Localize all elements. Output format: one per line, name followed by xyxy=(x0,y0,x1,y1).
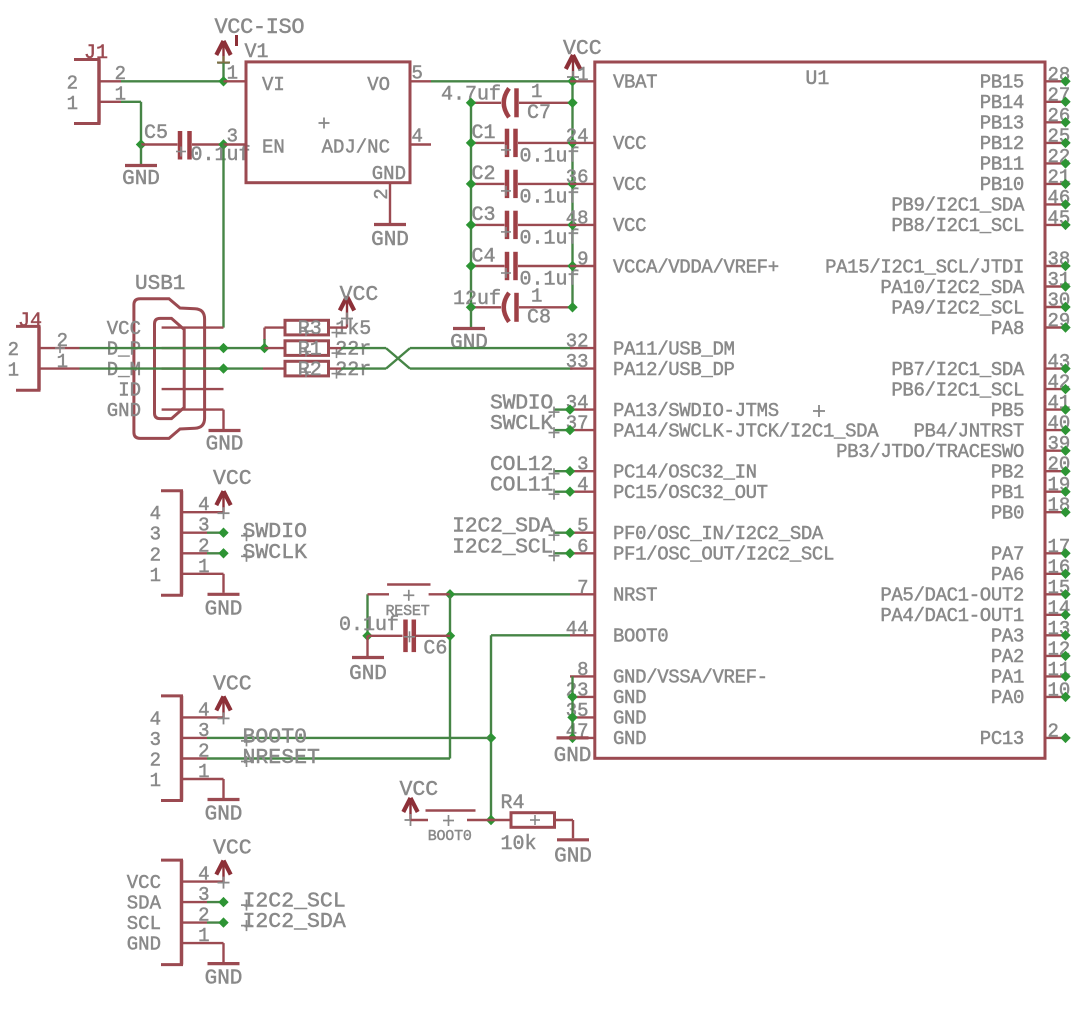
svg-text:1: 1 xyxy=(67,93,78,115)
svg-text:8: 8 xyxy=(577,659,588,681)
wire J1.1 to C5 xyxy=(121,102,141,145)
IC U1 pin 12 (PA2) xyxy=(991,638,1071,668)
IC U1 pin 9 (VCCA/VDDA/VREF+) xyxy=(570,249,779,279)
svg-text:1: 1 xyxy=(150,770,161,792)
svg-text:3: 3 xyxy=(150,729,161,751)
svg-text:1: 1 xyxy=(8,360,19,382)
IC U1 pin 10 (PA0) xyxy=(991,679,1071,709)
svg-text:PF1/OSC_OUT/I2C2_SCL: PF1/OSC_OUT/I2C2_SCL xyxy=(613,544,834,566)
svg-text:VCC: VCC xyxy=(613,174,646,196)
svg-text:PA0: PA0 xyxy=(991,687,1024,709)
ground at U1 GND pins xyxy=(557,736,589,739)
svg-text:C4: C4 xyxy=(472,245,496,268)
svg-text:0.1uf: 0.1uf xyxy=(339,614,399,637)
net label COL12 at U1 xyxy=(490,453,575,479)
IC U1 pin 44 (BOOT0) xyxy=(566,618,669,648)
wire U1 GND pins xyxy=(571,676,573,738)
IC U1 pin 48 (VCC) xyxy=(566,207,646,237)
wire R3 to D_P xyxy=(263,328,265,349)
svg-text:PB2: PB2 xyxy=(991,462,1024,484)
IC U1 pin 33 (PA12/USB_DP) xyxy=(566,351,735,381)
connector J4 pin numbers xyxy=(8,330,68,382)
regulator V1 pin 1 (VI) xyxy=(224,63,247,85)
connector USB1 pin ID xyxy=(118,379,223,401)
SWD header pin header bracket xyxy=(161,491,183,596)
IC U1 pin 18 (PB0) xyxy=(991,495,1071,525)
connector USB1 pin D_M xyxy=(107,359,224,381)
net label SWCLK at header xyxy=(207,541,307,565)
wire V1.VO to VCC rail xyxy=(431,80,574,82)
connector J1 pin numbers xyxy=(67,63,126,115)
svg-text:PB6/I2C1_SCL: PB6/I2C1_SCL xyxy=(891,379,1024,401)
resistor R3 1k5 xyxy=(265,318,372,341)
IC U1 pin 3 (PC14/OSC32_IN) xyxy=(570,454,757,484)
svg-text:10k: 10k xyxy=(501,833,537,856)
wire D_M J4 to R2 xyxy=(80,367,264,369)
svg-text:PA15/I2C1_SCL/JTDI: PA15/I2C1_SCL/JTDI xyxy=(825,256,1024,278)
svg-text:VO: VO xyxy=(367,74,390,96)
svg-text:VCC: VCC xyxy=(127,872,161,894)
svg-text:22r: 22r xyxy=(335,359,371,382)
svg-text:PA10/I2C2_SDA: PA10/I2C2_SDA xyxy=(880,277,1025,299)
svg-text:2: 2 xyxy=(371,188,393,199)
node USB D_P junction xyxy=(218,343,228,353)
svg-text:48: 48 xyxy=(566,207,589,229)
svg-text:J1: J1 xyxy=(84,42,108,65)
svg-text:BOOT0: BOOT0 xyxy=(613,626,668,648)
node EN junction xyxy=(218,139,228,149)
resistor R1 right lead xyxy=(329,347,342,349)
svg-text:3: 3 xyxy=(227,126,238,148)
svg-text:PB15: PB15 xyxy=(980,72,1024,94)
IC U1 pin 28 (PB15) xyxy=(980,64,1071,94)
svg-text:PB9/I2C1_SDA: PB9/I2C1_SDA xyxy=(891,195,1025,217)
svg-text:PC13: PC13 xyxy=(980,728,1024,750)
IC U1 pin 31 (PA10/I2C2_SDA) xyxy=(880,269,1070,299)
svg-text:C3: C3 xyxy=(472,204,496,227)
svg-text:R2: R2 xyxy=(298,359,322,382)
connector USB1 pin GND xyxy=(107,400,224,422)
svg-text:PC14/OSC32_IN: PC14/OSC32_IN xyxy=(613,462,757,484)
svg-text:VCC: VCC xyxy=(340,283,379,307)
svg-text:5: 5 xyxy=(412,63,423,85)
junction dots on VCC cap column xyxy=(567,98,577,313)
svg-text:GND: GND xyxy=(122,168,160,191)
svg-text:PA3: PA3 xyxy=(991,626,1024,648)
svg-text:SWCLK: SWCLK xyxy=(490,412,553,436)
capacitor C1 xyxy=(471,129,573,157)
supply VCC arrow above rail xyxy=(572,55,574,77)
net label NRESET at header xyxy=(207,746,450,770)
connector J4 pin 2 stub xyxy=(41,347,80,349)
svg-text:PF0/OSC_IN/I2C2_SDA: PF0/OSC_IN/I2C2_SDA xyxy=(613,523,824,545)
svg-text:PB1: PB1 xyxy=(991,482,1024,504)
svg-text:0.1uf: 0.1uf xyxy=(520,269,580,292)
svg-text:PA11/USB_DM: PA11/USB_DM xyxy=(613,338,735,360)
IC U1 pin 4 (PC15/OSC32_OUT) xyxy=(570,474,768,504)
node BOOT0 header junction xyxy=(486,733,496,743)
SWD header ground on pin 1 xyxy=(205,574,243,622)
net label I2C2_SCL at U1 xyxy=(452,535,575,561)
IC U1 pin 5 (PF0/OSC_IN/I2C2_SDA) xyxy=(570,515,824,545)
switch S RESET xyxy=(368,585,450,601)
net label SWCLK at U1 xyxy=(490,412,575,438)
svg-text:USB1: USB1 xyxy=(135,273,185,296)
svg-text:32: 32 xyxy=(566,331,589,353)
svg-text:3: 3 xyxy=(150,524,161,546)
IC U1 pin 24 (VCC) xyxy=(566,125,646,155)
svg-text:PA2: PA2 xyxy=(991,646,1024,668)
node NRST junction xyxy=(445,589,455,599)
svg-text:VCC: VCC xyxy=(107,318,141,340)
node C6 left junction xyxy=(362,631,372,641)
svg-text:C1: C1 xyxy=(472,122,496,145)
svg-text:VCC: VCC xyxy=(563,37,602,61)
svg-text:24: 24 xyxy=(566,125,589,147)
regulator V1 body xyxy=(246,62,410,183)
wire J1.2 to VCC-ISO node xyxy=(121,80,224,82)
svg-text:GND/VSSA/VREF-: GND/VSSA/VREF- xyxy=(613,667,768,689)
IC U1 pin 17 (PA7) xyxy=(991,536,1071,566)
node R3/D_P junction xyxy=(259,343,269,353)
I2C header pin header pin 4 xyxy=(183,864,210,886)
capacitor C8 xyxy=(471,293,573,322)
svg-text:VCC: VCC xyxy=(213,837,252,861)
svg-text:PA9/I2C2_SCL: PA9/I2C2_SCL xyxy=(891,297,1024,319)
svg-text:36: 36 xyxy=(566,166,589,188)
BOOT header ground on pin 1 xyxy=(205,779,243,827)
svg-text:6: 6 xyxy=(577,536,588,558)
IC U1 pin 16 (PA6) xyxy=(991,556,1071,586)
svg-text:0.1uf: 0.1uf xyxy=(520,228,580,251)
resistor R4 right lead xyxy=(554,820,573,838)
junction dots U1 GND pins xyxy=(567,692,577,743)
I2C header pin header bracket xyxy=(161,860,183,965)
wire USB_DM crossover xyxy=(341,348,573,369)
svg-text:PA5/DAC1-OUT2: PA5/DAC1-OUT2 xyxy=(880,585,1024,607)
svg-text:GND: GND xyxy=(205,968,243,991)
svg-text:VCC: VCC xyxy=(400,778,439,802)
svg-text:U1: U1 xyxy=(805,68,829,91)
IC U1 pin 45 (PB8/I2C1_SCL) xyxy=(891,207,1070,237)
svg-text:SCL: SCL xyxy=(127,913,161,935)
I2C header pin header pin 1 xyxy=(183,925,210,947)
svg-text:VCC: VCC xyxy=(213,467,252,491)
ground below C6 xyxy=(349,636,387,686)
IC U1 pin 26 (PB13) xyxy=(980,105,1071,135)
junction dots on GND cap column xyxy=(466,98,476,313)
SWD header supply VCC arrow on pin 4 xyxy=(207,467,252,519)
IC U1 pin 47 (GND) xyxy=(566,720,646,750)
IC U1 pin 29 (PA8) xyxy=(991,310,1071,340)
ground below cap column xyxy=(450,307,488,355)
svg-text:7: 7 xyxy=(577,577,588,599)
node USB D_M junction xyxy=(218,363,228,373)
wire NRST vertical xyxy=(449,594,451,758)
ground below R4 xyxy=(557,838,589,841)
BOOT header pin header pin 2 xyxy=(183,741,210,763)
svg-text:2: 2 xyxy=(8,339,19,361)
BOOT header supply VCC arrow on pin 4 xyxy=(207,672,252,724)
capacitor C5 xyxy=(141,131,224,160)
wire USB_DP crossover xyxy=(341,348,573,369)
svg-text:EN: EN xyxy=(262,137,285,159)
connector J1 bracket xyxy=(74,60,101,124)
IC U1 pin 22 (PB11) xyxy=(980,146,1071,176)
svg-text:I2C2_SCL: I2C2_SCL xyxy=(452,535,553,559)
svg-text:BOOT0: BOOT0 xyxy=(428,828,472,845)
regulator V1 pin labels xyxy=(262,74,406,185)
ground below V1 xyxy=(374,223,406,226)
IC U1 body xyxy=(595,62,1045,758)
svg-text:0.1uf: 0.1uf xyxy=(520,187,580,210)
svg-text:VBAT: VBAT xyxy=(613,72,657,94)
svg-text:5: 5 xyxy=(577,515,588,537)
svg-text:ADJ/NC: ADJ/NC xyxy=(322,137,390,159)
connector USB1 pin D_P xyxy=(107,338,224,360)
node VCC-ISO junction xyxy=(218,76,228,86)
svg-text:VCC-ISO: VCC-ISO xyxy=(215,15,305,40)
IC U1 pin 35 (GND) xyxy=(566,700,646,730)
svg-text:NRESET: NRESET xyxy=(243,746,321,770)
wire RESET to C6 xyxy=(366,594,368,635)
regulator V1 pin 3 (EN) xyxy=(224,126,247,148)
IC U1 pin 23 (GND) xyxy=(566,679,646,709)
svg-text:4: 4 xyxy=(150,503,161,525)
svg-text:PA7: PA7 xyxy=(991,544,1024,566)
supply VCC-ISO arrow xyxy=(216,41,230,69)
net label I2C2_SDA at U1 xyxy=(452,515,575,541)
svg-text:PA13/SWDIO-JTMS: PA13/SWDIO-JTMS xyxy=(613,400,779,422)
svg-text:PB3/JTDO/TRACESWO: PB3/JTDO/TRACESWO xyxy=(836,441,1024,463)
IC U1 pin 25 (PB12) xyxy=(980,125,1071,155)
svg-text:SDA: SDA xyxy=(127,893,162,915)
svg-text:2: 2 xyxy=(150,750,161,772)
IC U1 pin 20 (PB2) xyxy=(991,454,1071,484)
svg-text:PB7/I2C1_SDA: PB7/I2C1_SDA xyxy=(891,359,1025,381)
IC U1 pin 32 (PA11/USB_DM) xyxy=(566,331,735,361)
svg-text:PB12: PB12 xyxy=(980,133,1024,155)
node C5 left junction xyxy=(136,139,146,149)
svg-text:4: 4 xyxy=(150,708,161,730)
svg-text:0.1uf: 0.1uf xyxy=(520,146,580,169)
svg-text:GND: GND xyxy=(554,745,592,768)
svg-text:D_P: D_P xyxy=(107,338,141,360)
svg-text:PA1: PA1 xyxy=(991,667,1024,689)
svg-text:1: 1 xyxy=(150,565,161,587)
svg-text:0.1uf: 0.1uf xyxy=(191,144,251,167)
supply VCC arrow above R3 xyxy=(346,297,348,319)
svg-text:PB0: PB0 xyxy=(991,503,1024,525)
net GND cap column vertical xyxy=(470,103,472,307)
resistor R2 22r xyxy=(263,359,371,382)
svg-text:1: 1 xyxy=(227,63,238,85)
connector J4 bracket xyxy=(16,326,41,390)
svg-text:4: 4 xyxy=(412,126,423,148)
resistor R3 VCC lead xyxy=(329,319,348,328)
net label SWDIO at header xyxy=(207,520,307,544)
wire BOOT0 vertical xyxy=(490,635,492,820)
IC U1 pin 13 (PA3) xyxy=(991,618,1071,648)
svg-text:GND: GND xyxy=(107,400,141,422)
SWD header pin header pin 3 xyxy=(183,515,210,537)
connector J4 pin 1 stub xyxy=(41,367,80,369)
IC U1 pin 39 (PB3/JTDO/TRACESWO) xyxy=(836,433,1071,463)
I2C header pin header pin 2 xyxy=(183,905,210,927)
IC U1 origin cross xyxy=(813,410,825,412)
IC U1 pin 41 (PB5) xyxy=(991,392,1071,422)
svg-text:GND: GND xyxy=(613,708,646,730)
svg-text:GND: GND xyxy=(205,598,243,621)
svg-text:9: 9 xyxy=(577,249,588,271)
connector J1 pin 2 stub xyxy=(101,80,122,82)
connector J1 pin 1 stub xyxy=(101,101,122,103)
svg-text:2: 2 xyxy=(67,72,78,94)
ground below C5 xyxy=(122,145,160,192)
wire EN node to USB1 VCC xyxy=(222,145,224,328)
svg-text:COL11: COL11 xyxy=(490,474,553,498)
svg-text:GND: GND xyxy=(613,728,646,750)
IC U1 pin 6 (PF1/OSC_OUT/I2C2_SCL) xyxy=(570,536,834,566)
svg-text:PA14/SWCLK-JTCK/I2C1_SDA: PA14/SWCLK-JTCK/I2C1_SDA xyxy=(613,420,879,442)
svg-text:PB13: PB13 xyxy=(980,113,1024,135)
svg-text:2: 2 xyxy=(150,544,161,566)
svg-text:GND: GND xyxy=(349,663,387,686)
regulator V1 pin 4 (ADJ) xyxy=(410,126,431,148)
svg-text:33: 33 xyxy=(566,351,589,373)
IC U1 pin 2 (PC13) xyxy=(980,720,1071,750)
IC U1 pin 21 (PB10) xyxy=(980,166,1071,196)
IC U1 pin 27 (PB14) xyxy=(980,84,1071,114)
net label SWDIO at U1 xyxy=(490,392,575,418)
svg-text:PB8/I2C1_SCL: PB8/I2C1_SCL xyxy=(891,215,1024,237)
I2C header pin header pin 3 xyxy=(183,884,210,906)
IC U1 pin 1 (VBAT) xyxy=(570,64,657,94)
svg-text:1: 1 xyxy=(577,64,588,86)
svg-text:GND: GND xyxy=(205,804,243,827)
IC U1 pin 30 (PA9/I2C2_SCL) xyxy=(891,290,1070,320)
IC U1 pin 46 (PB9/I2C1_SDA) xyxy=(891,187,1070,217)
SWD header pin header pin 2 xyxy=(183,535,210,557)
wire NRST U1 to RESET xyxy=(450,593,570,595)
svg-text:PB4/JNTRST: PB4/JNTRST xyxy=(913,420,1024,442)
ground below USB1 xyxy=(206,410,244,457)
SWD header pin header pin 4 xyxy=(183,494,210,516)
regulator V1 pin 2 (GND) xyxy=(371,183,393,224)
BOOT header pin header bracket xyxy=(161,696,183,801)
BOOT header pin header pin 3 xyxy=(183,720,210,742)
svg-text:D_M: D_M xyxy=(107,359,141,381)
svg-text:PB14: PB14 xyxy=(980,92,1024,114)
capacitor C4 xyxy=(471,252,573,280)
svg-text:3: 3 xyxy=(577,454,588,476)
svg-text:PA6: PA6 xyxy=(991,564,1024,586)
svg-text:SWCLK: SWCLK xyxy=(243,541,308,565)
BOOT header pin header pin 1 xyxy=(183,761,210,783)
IC U1 pin 37 (PA14/SWCLK-JTCK/I2C1_SDA) xyxy=(566,413,880,443)
svg-text:PA12/USB_DP: PA12/USB_DP xyxy=(613,359,735,381)
IC U1 pin 14 (PA4/DAC1-OUT1) xyxy=(880,597,1070,627)
svg-text:PB11: PB11 xyxy=(980,154,1024,176)
IC U1 pin 36 (VCC) xyxy=(566,166,646,196)
regulator V1 pin 5 (VO) xyxy=(410,63,431,85)
svg-text:GND: GND xyxy=(372,163,406,185)
svg-text:GND: GND xyxy=(554,846,592,869)
svg-text:PC15/OSC32_OUT: PC15/OSC32_OUT xyxy=(613,482,768,504)
wire D_P J4 to R1 xyxy=(80,347,265,349)
svg-text:C6: C6 xyxy=(423,638,447,661)
IC U1 pin 7 (NRST) xyxy=(570,577,657,607)
SWD header pin header pin 1 xyxy=(183,556,210,578)
IC U1 pin 34 (PA13/SWDIO-JTMS) xyxy=(566,392,779,422)
resistor R2 right lead xyxy=(329,367,342,369)
svg-text:I2C2_SDA: I2C2_SDA xyxy=(243,910,346,934)
svg-text:12uf: 12uf xyxy=(453,288,501,311)
net label I2C2_SCL at header xyxy=(207,890,346,914)
connector USB1 inner shell xyxy=(155,318,185,418)
IC U1 pin 11 (PA1) xyxy=(991,659,1071,689)
svg-text:1: 1 xyxy=(57,351,68,373)
svg-text:4: 4 xyxy=(577,474,588,496)
svg-text:C8: C8 xyxy=(527,306,551,329)
svg-text:C7: C7 xyxy=(527,102,551,125)
svg-text:VCC: VCC xyxy=(613,133,646,155)
net label COL11 at U1 xyxy=(490,474,575,500)
svg-text:2: 2 xyxy=(1048,720,1059,742)
node C6 right junction xyxy=(445,631,455,641)
resistor R1 22r xyxy=(265,338,372,361)
IC U1 pin 15 (PA5/DAC1-OUT2) xyxy=(880,577,1070,607)
svg-text:1: 1 xyxy=(531,81,542,103)
IC U1 pin 40 (PB4/JNTRST) xyxy=(913,413,1070,443)
net VCC cap column vertical xyxy=(571,81,573,307)
node VCC rail top junction xyxy=(567,76,577,86)
capacitor C6 xyxy=(368,620,451,653)
connector USB1 pin VCC xyxy=(107,318,224,340)
IC U1 pin 8 (GND/VSSA/VREF-) xyxy=(570,659,768,689)
connector USB1 outer shell xyxy=(134,299,205,439)
svg-text:VCCA/VDDA/VREF+: VCCA/VDDA/VREF+ xyxy=(613,256,779,278)
svg-text:GND: GND xyxy=(450,332,488,355)
svg-text:VCC: VCC xyxy=(613,215,646,237)
svg-text:C5: C5 xyxy=(144,122,168,145)
svg-text:1: 1 xyxy=(531,285,542,307)
net label I2C2_SDA at header xyxy=(207,910,346,934)
supply VCC-ISO tick xyxy=(235,35,238,46)
IC U1 pin 38 (PA15/I2C1_SCL/JTDI) xyxy=(825,249,1071,279)
svg-text:PB10: PB10 xyxy=(980,174,1024,196)
svg-text:GND: GND xyxy=(127,934,161,956)
IC U1 pin 42 (PB6/I2C1_SCL) xyxy=(891,372,1070,402)
svg-text:VCC: VCC xyxy=(213,672,252,696)
BOOT header pin header pin 4 xyxy=(183,699,210,721)
svg-text:PA8: PA8 xyxy=(991,318,1024,340)
wire VCC-ISO arrow to node xyxy=(222,63,224,81)
switch S BOOT0 xyxy=(411,811,494,827)
svg-text:ID: ID xyxy=(118,379,141,401)
IC U1 pin 43 (PB7/I2C1_SDA) xyxy=(891,351,1070,381)
svg-text:PB5: PB5 xyxy=(991,400,1024,422)
capacitor C2 xyxy=(471,170,573,198)
svg-text:VI: VI xyxy=(262,74,285,96)
IC U1 pin 19 (PB1) xyxy=(991,474,1071,504)
wire BOOT0 U1 to header xyxy=(491,634,570,636)
svg-text:GND: GND xyxy=(371,229,409,252)
capacitor C3 xyxy=(471,211,573,239)
svg-text:C2: C2 xyxy=(472,163,496,186)
svg-text:PA4/DAC1-OUT1: PA4/DAC1-OUT1 xyxy=(880,605,1024,627)
I2C header ground on pin 1 xyxy=(205,943,243,991)
